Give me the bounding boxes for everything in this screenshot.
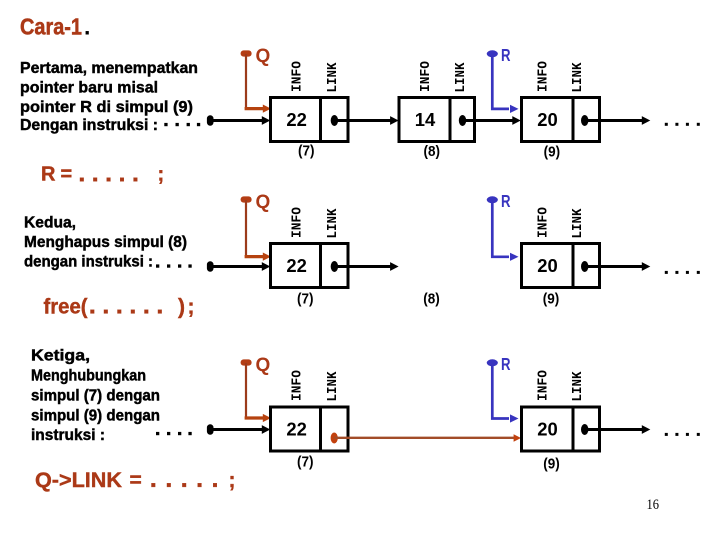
- svg-text:INFO: INFO: [418, 61, 434, 92]
- dots after paragraph 3: [156, 432, 192, 435]
- node (7) row3: box: [271, 407, 349, 451]
- wire node(9) onward row1: [585, 119, 643, 122]
- pointer R row1: arrowhead: [510, 105, 519, 113]
- svg-text:(9): (9): [543, 456, 560, 473]
- svg-text:dengan instruksi :: dengan instruksi :: [24, 254, 153, 271]
- wire start to node(7) row3: [212, 428, 263, 431]
- svg-text:.: .: [84, 14, 90, 40]
- node (9) row2: link dot: [581, 261, 588, 272]
- dots after paragraph 2: [156, 264, 192, 267]
- svg-text:Q->LINK: Q->LINK: [35, 469, 122, 492]
- svg-text:Q: Q: [256, 46, 271, 67]
- svg-text:INFO: INFO: [536, 207, 552, 238]
- wire node(7) onward row2: [334, 265, 391, 268]
- node (7) row1: link dot: [331, 115, 338, 126]
- svg-text:(7): (7): [298, 143, 315, 160]
- start dot row1: [207, 115, 214, 125]
- svg-text:Pertama, menempatkan: Pertama, menempatkan: [20, 60, 198, 77]
- svg-text:Ketiga,: Ketiga,: [31, 348, 90, 365]
- svg-text:free(: free(: [44, 296, 88, 319]
- wire node(7) to node(8) row1: [334, 119, 391, 122]
- wire node(8) to node(9) row1: [463, 119, 514, 122]
- svg-text:20: 20: [537, 110, 558, 130]
- svg-text:Menghubungkan: Menghubungkan: [31, 368, 146, 385]
- svg-text:(9): (9): [543, 291, 560, 308]
- svg-text:INFO: INFO: [536, 370, 552, 401]
- pointer R row2: dot: [487, 196, 498, 203]
- svg-text:R: R: [41, 164, 56, 186]
- pointer Q row3: dot: [241, 359, 252, 365]
- node (9) row3: box: [522, 407, 600, 451]
- wire node(9) onward row3: [585, 428, 643, 431]
- svg-text:Menghapus simpul (8): Menghapus simpul (8): [24, 234, 187, 251]
- pointer Q row1: arrowhead: [263, 105, 271, 113]
- svg-text:Cara-1: Cara-1: [20, 14, 82, 40]
- pointer R row1: dot: [487, 50, 498, 57]
- pointer Q row3: arrowhead: [263, 414, 271, 422]
- node (9) row2: box: [522, 244, 600, 288]
- svg-text:Q: Q: [256, 192, 271, 213]
- wire start to node(7) row1: [212, 119, 263, 122]
- wire start to node(7) row2: [212, 265, 263, 268]
- node (9) row1: box: [522, 98, 600, 142]
- svg-text:(8): (8): [423, 291, 440, 308]
- svg-text:R: R: [501, 354, 511, 374]
- node (9) row1: link dot: [581, 115, 588, 126]
- svg-text:LINK: LINK: [570, 62, 586, 93]
- svg-text:LINK: LINK: [570, 371, 586, 402]
- svg-text:=: =: [130, 469, 142, 492]
- pointer Q row1: dot: [241, 50, 252, 56]
- svg-text:22: 22: [286, 420, 307, 440]
- svg-text:INFO: INFO: [290, 207, 306, 238]
- svg-text:(7): (7): [297, 291, 314, 308]
- svg-text:;: ;: [188, 296, 195, 319]
- svg-text:Dengan instruksi :: Dengan instruksi :: [20, 117, 158, 134]
- paragraph 3: [31, 348, 160, 445]
- svg-text:simpul (7) dengan: simpul (7) dengan: [31, 388, 160, 405]
- svg-text:=: =: [61, 164, 73, 186]
- pointer R row3: stem wire: [492, 365, 509, 419]
- svg-text:;: ;: [229, 469, 236, 492]
- start dot row3: [207, 424, 214, 434]
- pointer Q row3: stem wire: [245, 363, 247, 418]
- svg-text:LINK: LINK: [453, 62, 469, 93]
- code line R =: [41, 164, 164, 186]
- svg-text:INFO: INFO: [290, 61, 306, 92]
- trailing dots row2: [665, 271, 700, 274]
- svg-text:16: 16: [647, 497, 660, 513]
- node (7) row2: box: [271, 244, 349, 288]
- pointer R row2: stem wire: [492, 202, 509, 257]
- svg-text:(9): (9): [544, 144, 561, 161]
- pointer Q row2: stem wire: [245, 200, 247, 257]
- pointer Q row1: stem wire: [245, 54, 247, 109]
- wire node(7) to node(9) row3 (orange): [334, 437, 514, 439]
- svg-text:LINK: LINK: [325, 62, 341, 93]
- pointer R row2: arrowhead: [510, 253, 519, 261]
- svg-text:Kedua,: Kedua,: [24, 215, 76, 232]
- title Cara-1: [20, 14, 90, 40]
- svg-text:R: R: [501, 45, 511, 65]
- paragraph 1: [20, 60, 198, 134]
- svg-text:;: ;: [158, 164, 165, 186]
- node (7) row3: link dot (orange): [331, 433, 338, 444]
- code line Q->LINK: [35, 469, 236, 492]
- svg-text:LINK: LINK: [325, 371, 341, 402]
- trailing dots row3: [665, 433, 700, 436]
- svg-text:20: 20: [537, 420, 558, 440]
- svg-text:20: 20: [537, 256, 558, 276]
- svg-text:LINK: LINK: [570, 208, 586, 239]
- svg-text:simpul (9) dengan: simpul (9) dengan: [31, 408, 160, 425]
- node (8) row1: link dot: [459, 115, 466, 126]
- wire node(9) onward row2: [585, 265, 643, 268]
- svg-text:INFO: INFO: [536, 61, 552, 92]
- code line free(): [44, 296, 195, 319]
- svg-text:INFO: INFO: [290, 370, 306, 401]
- svg-text:Q: Q: [256, 355, 271, 376]
- svg-text:): ): [178, 296, 185, 319]
- svg-text:LINK: LINK: [325, 208, 341, 239]
- dots after paragraph 1: [164, 123, 200, 126]
- svg-text:(8): (8): [424, 143, 441, 160]
- svg-text:R: R: [501, 191, 511, 211]
- node (9) row3: link dot: [581, 424, 588, 435]
- svg-text:instruksi :: instruksi :: [31, 427, 105, 444]
- node (7) row1: box: [271, 98, 349, 142]
- svg-text:(7): (7): [297, 454, 314, 471]
- paragraph 2: [24, 215, 187, 271]
- svg-text:pointer R di simpul (9): pointer R di simpul (9): [20, 99, 193, 116]
- pointer R row1: stem wire: [492, 56, 509, 109]
- pointer R row3: dot: [487, 359, 498, 366]
- svg-text:pointer baru misal: pointer baru misal: [20, 80, 158, 97]
- node (8) row1: box: [399, 98, 475, 142]
- start dot row2: [207, 261, 214, 271]
- pointer R row3: arrowhead: [510, 414, 519, 422]
- pointer Q row2: dot: [241, 196, 252, 202]
- svg-text:14: 14: [415, 110, 436, 130]
- pointer Q row2: arrowhead: [263, 253, 271, 261]
- node (7) row2: link dot: [331, 261, 338, 272]
- svg-text:22: 22: [286, 110, 307, 130]
- trailing dots row1: [665, 123, 700, 126]
- svg-text:22: 22: [286, 256, 307, 276]
